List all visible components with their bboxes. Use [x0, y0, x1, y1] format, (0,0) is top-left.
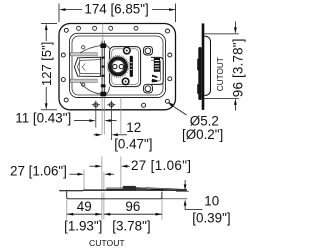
cutout label bottom [89, 238, 125, 248]
svg-text:CUTOUT: CUTOUT [89, 238, 125, 248]
dim 127 extension line bottom [41, 109, 57, 111]
dim 49-96 shared ext line [102, 193, 104, 220]
svg-text:96: 96 [125, 199, 140, 214]
knob pin holes [113, 64, 124, 68]
plate rivet upper [124, 47, 131, 54]
butterfly wing fold lines [102, 41, 104, 97]
front view dish lip inner [72, 36, 163, 95]
front view dish outer flange [59, 24, 176, 110]
wing top tab [100, 43, 106, 48]
dim 49 ext line left [66, 200, 68, 220]
dim 27 right arrows and text [90, 158, 192, 173]
dim 10 arrows [184, 180, 203, 210]
keeper lower wedges [152, 75, 157, 83]
svg-text:27 [1.06"]: 27 [1.06"] [131, 158, 191, 173]
screw holes bottom row [94, 103, 146, 108]
wing outline curves [80, 46, 110, 94]
svg-text:96 [3.78"]: 96 [3.78"] [230, 38, 245, 97]
crosshair marks bottom holes [92, 101, 116, 109]
hole diameter leader [168, 102, 187, 115]
ext line hole2 [110, 108, 112, 141]
dim 11 text and arrows [15, 110, 116, 125]
dim 10 ext lines [162, 191, 189, 199]
keeper bracket [151, 57, 163, 84]
dim 12 text [114, 120, 152, 151]
dim 49 text [64, 199, 102, 234]
dim 96 ext line right [161, 200, 163, 220]
side cutout label rotated [216, 57, 225, 91]
bottom profile lump3 block [136, 187, 146, 190]
dim 49 line and arrows [67, 213, 102, 216]
side dim 96 arrows [234, 22, 237, 111]
svg-text:CUTOUT: CUTOUT [216, 57, 225, 91]
keeper tab lower [144, 84, 153, 93]
dim 174 extension line left [58, 4, 60, 23]
wing bottom tab [100, 92, 106, 97]
bottom profile right wedge [146, 188, 187, 191]
screw holes top row [77, 26, 139, 30]
ext line hole1 [95, 108, 97, 128]
svg-text:[0.47"]: [0.47"] [114, 137, 152, 152]
dim 96 line and arrows [104, 213, 162, 216]
bottom profile main plate [83, 189, 186, 191]
keeper emboss text block [154, 58, 160, 72]
dim 174 extension line right [175, 4, 177, 23]
dim 127 line and arrows [45, 24, 48, 110]
svg-text:[Ø0.2"]: [Ø0.2"] [182, 127, 223, 142]
hole diameter text [182, 113, 223, 142]
svg-text:49: 49 [77, 199, 92, 214]
screw holes corners [64, 28, 169, 103]
bottom view pan outline [67, 192, 162, 199]
knob outer ring [107, 56, 129, 78]
dim 27 left text and arrows [10, 163, 114, 178]
bottom profile lump1 ridge [107, 188, 124, 189]
dish floor rivet holes [82, 46, 85, 87]
dim 174 text [84, 1, 148, 16]
bottom view ext line D [120, 98, 122, 191]
screw holes right column [168, 53, 172, 81]
bottom profile lump2 dark block [123, 186, 136, 191]
centerline top [102, 24, 104, 41]
wing mid tabs [101, 57, 106, 88]
side view flange [202, 23, 205, 110]
bottom profile left plate [59, 190, 83, 191]
bottom view ext line B [101, 157, 103, 191]
svg-text:127 [5"]: 127 [5"] [39, 42, 54, 86]
svg-text:27 [1.06"]: 27 [1.06"] [10, 163, 67, 178]
dim 12 arrows [94, 133, 128, 136]
svg-text:12: 12 [126, 120, 141, 135]
keeper tab upper [144, 46, 153, 55]
side view handle blob [197, 47, 202, 100]
bottom view ext line C [103, 172, 105, 190]
svg-text:[1.93"]: [1.93"] [64, 218, 102, 233]
ext line center pair [102, 98, 104, 135]
plate rivet lower [122, 78, 129, 85]
logo bar [130, 56, 133, 77]
bottom view ext line A [83, 170, 85, 191]
side view pan outline [204, 36, 210, 95]
latch base plate [110, 47, 141, 87]
svg-text:[0.39"]: [0.39"] [192, 210, 230, 225]
dim 96 text [112, 199, 150, 234]
side dim 96 text rotated [230, 38, 245, 97]
svg-text:11 [0.43"]: 11 [0.43"] [15, 110, 71, 125]
latch claw [74, 57, 100, 76]
dim 174 line and arrows [59, 8, 176, 11]
svg-text:[3.78"]: [3.78"] [112, 218, 150, 233]
svg-text:10: 10 [204, 194, 219, 209]
latch spring band lower [70, 79, 97, 82]
side cutout ext line bottom [204, 97, 239, 99]
dim 127 extension line top [41, 23, 57, 25]
dim 127 text [39, 42, 54, 86]
dim 10 text [192, 194, 230, 226]
front view dish lip outer [70, 33, 166, 97]
side cutout ext line top [204, 33, 239, 35]
screw holes left column [61, 53, 65, 82]
latch spring band upper [70, 53, 97, 56]
svg-text:174 [6.85"]: 174 [6.85"] [84, 1, 148, 16]
